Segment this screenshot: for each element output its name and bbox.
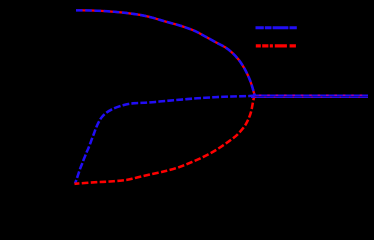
legend red dashed sample — [256, 44, 296, 47]
after-merge bottom line red base — [251, 96, 368, 98]
after-merge top line blue dashed overlay — [253, 94, 368, 96]
upper branch red base — [76, 10, 255, 95]
lower branch red dashed — [75, 96, 255, 184]
middle branch blue dashed — [75, 96, 255, 184]
upper branch blue dashed overlay — [76, 10, 255, 95]
after-merge bottom line blue dashed overlay — [251, 96, 368, 98]
after-merge top line red base — [253, 94, 368, 96]
legend blue dashed sample — [256, 26, 298, 29]
